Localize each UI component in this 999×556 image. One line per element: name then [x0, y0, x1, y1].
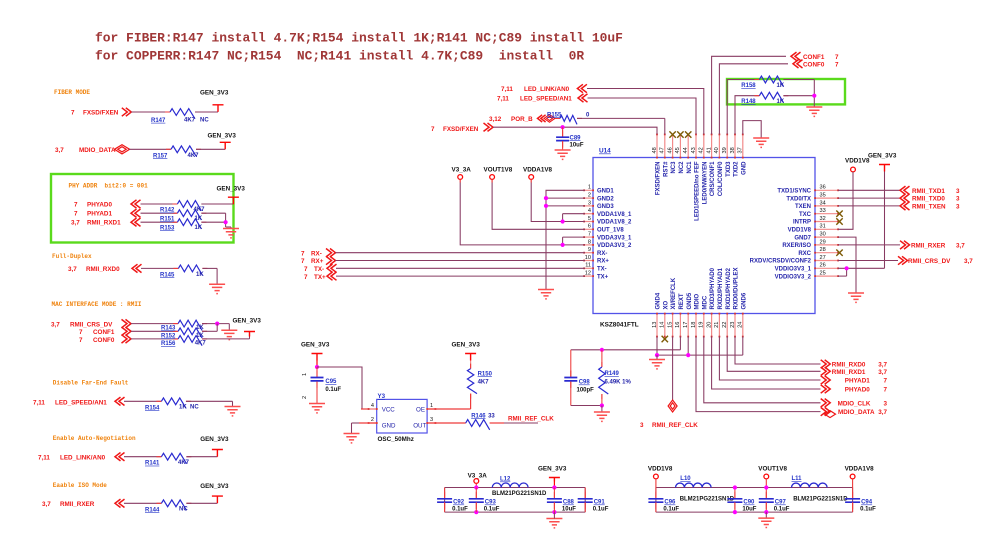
svg-text:TXEN: TXEN: [795, 204, 811, 210]
svg-text:3,7: 3,7: [878, 369, 887, 376]
svg-text:0.1uF: 0.1uF: [325, 387, 341, 393]
svg-text:POR_B: POR_B: [511, 116, 533, 123]
svg-text:7: 7: [79, 329, 83, 336]
svg-text:RXDV/CRSDV/CONF2: RXDV/CRSDV/CONF2: [750, 259, 812, 265]
svg-text:4K7: 4K7: [194, 207, 206, 213]
svg-text:10uF: 10uF: [742, 507, 756, 513]
svg-text:TXD2: TXD2: [734, 161, 740, 177]
svg-text:27: 27: [820, 255, 826, 261]
svg-text:RMII_RXER: RMII_RXER: [911, 243, 946, 250]
svg-text:37: 37: [738, 147, 744, 153]
svg-text:R157: R157: [153, 153, 168, 159]
svg-text:NC2: NC2: [679, 161, 685, 174]
svg-text:Eaable ISO Mode: Eaable ISO Mode: [53, 482, 107, 489]
svg-text:PHYAD1: PHYAD1: [845, 378, 870, 385]
svg-text:BLM21PG221SN1D: BLM21PG221SN1D: [492, 491, 547, 497]
svg-text:VCC: VCC: [382, 406, 396, 413]
svg-text:6: 6: [588, 224, 591, 230]
svg-text:3,7: 3,7: [878, 362, 887, 369]
svg-text:4K7: 4K7: [195, 341, 207, 347]
svg-text:7: 7: [71, 110, 75, 117]
svg-text:1K: 1K: [196, 333, 204, 339]
svg-text:RMII_TXD0: RMII_TXD0: [912, 196, 945, 203]
svg-text:L10: L10: [680, 476, 691, 482]
svg-text:GND2: GND2: [597, 196, 614, 202]
svg-text:VDDIO3V3_2: VDDIO3V3_2: [775, 274, 812, 280]
svg-text:RXER/ISO: RXER/ISO: [782, 243, 811, 249]
svg-text:48: 48: [652, 147, 658, 153]
svg-text:VDD1V8: VDD1V8: [845, 158, 870, 165]
svg-text:LED_SPEED/AN1: LED_SPEED/AN1: [55, 399, 107, 406]
svg-text:C97: C97: [775, 500, 787, 506]
svg-text:NC1: NC1: [687, 161, 693, 174]
svg-text:C96: C96: [664, 500, 676, 506]
svg-text:C94: C94: [861, 500, 873, 506]
svg-text:OSC_50Mhz: OSC_50Mhz: [378, 436, 414, 443]
svg-text:3: 3: [430, 417, 433, 423]
svg-text:C89: C89: [570, 135, 582, 141]
svg-text:R146: R146: [471, 413, 486, 419]
svg-text:GEN_3V3: GEN_3V3: [217, 186, 246, 193]
svg-text:OUT_1V8: OUT_1V8: [597, 228, 624, 234]
svg-text:MDIO_DATA: MDIO_DATA: [838, 409, 875, 416]
svg-text:LED0/NWAYEN: LED0/NWAYEN: [702, 162, 708, 205]
svg-text:38: 38: [730, 147, 736, 153]
svg-text:46: 46: [667, 147, 673, 153]
svg-text:VDDA1V8: VDDA1V8: [845, 465, 875, 472]
svg-text:21: 21: [714, 322, 720, 328]
svg-text:GEN_3V3: GEN_3V3: [233, 317, 262, 324]
svg-text:R148: R148: [741, 99, 756, 105]
svg-text:RMII_REF_CLK: RMII_REF_CLK: [508, 416, 554, 423]
svg-text:23: 23: [730, 322, 736, 328]
svg-text:100pF: 100pF: [577, 388, 595, 394]
svg-text:R149: R149: [605, 371, 620, 377]
svg-text:7: 7: [588, 232, 591, 238]
svg-text:TX-: TX-: [597, 267, 607, 273]
svg-text:C90: C90: [743, 500, 755, 506]
svg-text:GND5: GND5: [687, 292, 693, 309]
svg-text:RXC: RXC: [798, 251, 811, 257]
svg-text:RX+: RX+: [597, 259, 609, 265]
svg-text:RMII_TXEN: RMII_TXEN: [912, 204, 946, 211]
svg-text:0.1uF: 0.1uF: [774, 507, 790, 513]
svg-text:7,11: 7,11: [501, 86, 513, 93]
svg-text:16: 16: [675, 322, 681, 328]
svg-text:LED_LINK/AN0: LED_LINK/AN0: [524, 86, 570, 93]
svg-text:R152: R152: [161, 333, 176, 339]
svg-text:FXSD/FXEN: FXSD/FXEN: [443, 126, 479, 133]
svg-text:GEN_3V3: GEN_3V3: [868, 153, 897, 160]
svg-text:36: 36: [820, 185, 826, 191]
svg-text:1K: 1K: [777, 83, 785, 89]
svg-text:3: 3: [956, 188, 960, 195]
svg-text:24: 24: [738, 322, 744, 328]
svg-text:R154: R154: [145, 405, 160, 411]
svg-text:TX+: TX+: [314, 274, 326, 281]
svg-text:TXD0/TX: TXD0/TX: [786, 196, 811, 202]
svg-text:PHYAD0: PHYAD0: [845, 387, 870, 394]
svg-text:for FIBER:R147 install 4.7K;R1: for FIBER:R147 install 4.7K;R154 install…: [95, 31, 623, 46]
svg-text:R153: R153: [160, 225, 175, 231]
svg-text:7: 7: [79, 337, 83, 344]
svg-text:1: 1: [588, 185, 591, 191]
svg-text:GND: GND: [382, 422, 396, 429]
svg-text:7: 7: [74, 202, 78, 209]
svg-text:0.1uF: 0.1uF: [484, 507, 500, 513]
svg-text:15: 15: [667, 322, 673, 328]
svg-text:3: 3: [956, 204, 960, 211]
svg-text:CONF1: CONF1: [93, 329, 115, 336]
svg-text:7: 7: [835, 62, 839, 69]
svg-text:3,7: 3,7: [964, 258, 973, 265]
svg-text:5: 5: [588, 216, 591, 222]
svg-text:VDDA3V3_2: VDDA3V3_2: [597, 243, 632, 249]
svg-text:OE: OE: [416, 406, 425, 413]
svg-text:11: 11: [585, 263, 591, 269]
svg-text:GND6: GND6: [741, 292, 747, 309]
svg-text:1K: 1K: [179, 405, 187, 411]
svg-text:1: 1: [430, 403, 433, 409]
svg-text:3: 3: [588, 200, 591, 206]
svg-text:VOUT1V8: VOUT1V8: [484, 167, 513, 174]
svg-text:29: 29: [820, 239, 826, 245]
svg-text:3,7: 3,7: [68, 266, 77, 273]
svg-text:3,7: 3,7: [956, 243, 965, 250]
svg-text:17: 17: [683, 322, 689, 328]
svg-text:22: 22: [722, 322, 728, 328]
svg-text:RX+: RX+: [311, 258, 324, 265]
svg-text:R158: R158: [741, 83, 756, 89]
svg-text:7: 7: [301, 250, 305, 257]
svg-text:VDDIO3V3_1: VDDIO3V3_1: [775, 267, 812, 273]
svg-text:1: 1: [302, 373, 308, 376]
svg-text:42: 42: [699, 147, 705, 153]
svg-text:4: 4: [371, 403, 374, 409]
svg-text:RMII_REF_CLK: RMII_REF_CLK: [652, 422, 698, 429]
svg-text:R144: R144: [145, 507, 160, 513]
svg-text:TX+: TX+: [597, 274, 609, 280]
svg-text:7,11: 7,11: [33, 399, 45, 406]
svg-text:4K7: 4K7: [188, 153, 200, 159]
svg-text:GEN_3V3: GEN_3V3: [301, 342, 330, 349]
svg-text:7: 7: [835, 54, 839, 61]
svg-text:NC: NC: [200, 117, 209, 123]
svg-text:GEN_3V3: GEN_3V3: [208, 133, 237, 140]
svg-text:RMII_CRS_DV: RMII_CRS_DV: [70, 321, 113, 328]
svg-text:40: 40: [714, 147, 720, 153]
svg-text:7: 7: [431, 126, 435, 133]
svg-text:47: 47: [660, 147, 666, 153]
svg-text:10uF: 10uF: [570, 142, 584, 148]
svg-text:8: 8: [588, 239, 591, 245]
svg-text:20: 20: [706, 322, 712, 328]
svg-text:3,7: 3,7: [878, 409, 887, 416]
svg-text:LED_SPEED/AN1: LED_SPEED/AN1: [520, 96, 572, 103]
svg-text:R145: R145: [160, 272, 175, 278]
svg-text:L11: L11: [792, 476, 803, 482]
svg-text:10: 10: [585, 255, 591, 261]
svg-text:33: 33: [820, 208, 826, 214]
svg-text:4: 4: [588, 208, 591, 214]
svg-text:GEN_3V3: GEN_3V3: [200, 436, 229, 443]
svg-text:FXSD/FXEN: FXSD/FXEN: [83, 110, 119, 117]
svg-text:9: 9: [588, 247, 591, 253]
svg-text:FIBER MODE: FIBER MODE: [54, 89, 90, 96]
svg-text:3: 3: [640, 422, 644, 429]
svg-text:RST#: RST#: [663, 161, 669, 177]
svg-text:RX-: RX-: [311, 250, 322, 257]
svg-text:TXD1/SYNC: TXD1/SYNC: [777, 189, 811, 195]
svg-text:NC: NC: [179, 507, 188, 513]
svg-text:1K: 1K: [196, 272, 204, 278]
svg-text:3,7: 3,7: [51, 321, 60, 328]
svg-text:0.1uF: 0.1uF: [860, 507, 876, 513]
svg-text:PHYAD1: PHYAD1: [87, 211, 112, 218]
svg-text:GND1: GND1: [597, 189, 614, 195]
svg-text:4K7: 4K7: [178, 460, 190, 466]
svg-text:VDD1V8: VDD1V8: [648, 465, 673, 472]
svg-text:MDC: MDC: [702, 295, 708, 309]
svg-text:C95: C95: [325, 379, 337, 385]
svg-text:CONF0: CONF0: [93, 337, 115, 344]
svg-text:13: 13: [652, 322, 658, 328]
svg-text:TXC: TXC: [799, 212, 812, 218]
svg-text:GND: GND: [741, 161, 747, 175]
svg-text:BLM21PG221SN1D: BLM21PG221SN1D: [680, 497, 735, 503]
svg-text:7: 7: [304, 266, 308, 273]
svg-text:TX-: TX-: [314, 266, 324, 273]
svg-text:28: 28: [820, 247, 826, 253]
svg-text:R155: R155: [547, 112, 562, 118]
svg-text:C93: C93: [485, 500, 497, 506]
svg-text:R141: R141: [145, 461, 160, 467]
svg-text:VDD1V8: VDD1V8: [788, 228, 812, 234]
svg-text:10uF: 10uF: [562, 507, 576, 513]
svg-text:R150: R150: [478, 371, 493, 377]
svg-text:RX-: RX-: [597, 251, 607, 257]
svg-text:V3_3A: V3_3A: [452, 167, 472, 174]
svg-text:7: 7: [74, 211, 78, 218]
svg-text:RMII_RXD0: RMII_RXD0: [832, 362, 866, 369]
svg-text:RMII_RXER: RMII_RXER: [60, 501, 95, 508]
svg-text:7,11: 7,11: [38, 455, 50, 462]
svg-text:R142: R142: [160, 208, 175, 214]
svg-text:C91: C91: [594, 500, 606, 506]
svg-text:7: 7: [301, 258, 305, 265]
svg-text:35: 35: [820, 193, 826, 199]
svg-text:PHYAD0: PHYAD0: [87, 202, 112, 209]
svg-text:VDDA1V8_1: VDDA1V8_1: [597, 212, 632, 218]
svg-text:45: 45: [675, 147, 681, 153]
svg-text:1K: 1K: [195, 225, 203, 231]
svg-text:GND3: GND3: [597, 204, 614, 210]
svg-text:TXD3: TXD3: [726, 161, 732, 177]
svg-text:VDDA1V8_2: VDDA1V8_2: [597, 220, 632, 226]
svg-text:RMII_RXD1: RMII_RXD1: [87, 220, 121, 227]
svg-text:RXD3/PHYAD0: RXD3/PHYAD0: [710, 267, 716, 309]
svg-text:32: 32: [820, 216, 826, 222]
svg-text:INTRP: INTRP: [793, 220, 811, 226]
svg-text:7,11: 7,11: [497, 96, 509, 103]
svg-text:MAC INTERFACE MODE : RMII: MAC INTERFACE MODE : RMII: [52, 301, 142, 308]
svg-text:14: 14: [660, 322, 666, 328]
svg-text:7: 7: [883, 378, 887, 385]
svg-text:31: 31: [820, 224, 826, 230]
svg-text:3,7: 3,7: [71, 220, 80, 227]
svg-text:MDIO_CLK: MDIO_CLK: [838, 400, 871, 407]
svg-text:RMII_RXD0: RMII_RXD0: [86, 266, 120, 273]
svg-text:R156: R156: [161, 341, 176, 347]
svg-text:LED_LINK/AN0: LED_LINK/AN0: [60, 455, 106, 462]
svg-text:RMII_CRS_DV: RMII_CRS_DV: [908, 258, 951, 265]
svg-text:26: 26: [820, 263, 826, 269]
svg-text:44: 44: [683, 147, 689, 153]
svg-text:C98: C98: [579, 380, 591, 386]
svg-text:7: 7: [883, 387, 887, 394]
svg-text:3,7: 3,7: [55, 147, 64, 154]
svg-text:2: 2: [302, 396, 308, 399]
svg-text:VOUT1V8: VOUT1V8: [758, 465, 787, 472]
svg-text:Y3: Y3: [378, 393, 386, 400]
svg-text:Enable Auto-Negotiation: Enable Auto-Negotiation: [53, 435, 136, 442]
svg-text:6.49K 1%: 6.49K 1%: [605, 380, 632, 386]
svg-text:XI/REFCLK: XI/REFCLK: [671, 277, 677, 309]
svg-text:COL/CONF0: COL/CONF0: [718, 161, 724, 196]
svg-text:41: 41: [706, 147, 712, 153]
svg-text:NC3: NC3: [671, 161, 677, 174]
svg-text:FXSD/FXEN: FXSD/FXEN: [656, 162, 662, 196]
svg-text:C88: C88: [563, 500, 575, 506]
svg-text:RXD0/DUPLEX: RXD0/DUPLEX: [734, 267, 740, 309]
svg-text:GND4: GND4: [656, 292, 662, 309]
svg-text:30: 30: [820, 232, 826, 238]
svg-text:CRS/CONF1: CRS/CONF1: [710, 161, 716, 196]
svg-text:U14: U14: [599, 148, 611, 155]
svg-text:LED1/SPEED/no FEF: LED1/SPEED/no FEF: [695, 161, 701, 221]
svg-text:GEN_3V3: GEN_3V3: [452, 342, 481, 349]
svg-text:NC: NC: [190, 405, 199, 411]
svg-text:Full-Duplex: Full-Duplex: [52, 253, 92, 260]
svg-text:VDDA3V3_1: VDDA3V3_1: [597, 235, 632, 241]
svg-text:RXD1/PHYAD2: RXD1/PHYAD2: [726, 267, 732, 309]
svg-text:C92: C92: [453, 500, 465, 506]
svg-text:RMII_RXD1: RMII_RXD1: [832, 369, 866, 376]
svg-text:12: 12: [585, 271, 591, 277]
svg-text:RMII_TXD1: RMII_TXD1: [912, 188, 945, 195]
svg-text:for COPPERR:R147 NC;R154 NC;R: for COPPERR:R147 NC;R154 NC;R141 install…: [95, 49, 584, 64]
svg-text:1K: 1K: [777, 99, 785, 105]
svg-text:MDIO_DATA: MDIO_DATA: [79, 147, 116, 154]
svg-text:3,12: 3,12: [489, 116, 502, 123]
svg-text:VDDA1V8: VDDA1V8: [523, 167, 553, 174]
svg-text:CONF0: CONF0: [803, 62, 825, 69]
svg-text:RXD2/PHYAD1: RXD2/PHYAD1: [718, 267, 724, 309]
svg-text:2: 2: [588, 193, 591, 199]
svg-text:CONF1: CONF1: [803, 54, 825, 61]
svg-text:3,7: 3,7: [42, 501, 51, 508]
svg-text:33: 33: [488, 413, 495, 419]
svg-text:XO: XO: [663, 300, 669, 309]
svg-text:19: 19: [699, 322, 705, 328]
svg-text:OUT: OUT: [413, 422, 426, 429]
svg-text:2: 2: [371, 417, 374, 423]
svg-text:GEN_3V3: GEN_3V3: [200, 483, 229, 490]
svg-text:0.1uF: 0.1uF: [452, 507, 468, 513]
svg-text:R147: R147: [151, 118, 166, 124]
svg-text:18: 18: [691, 322, 697, 328]
svg-text:PHY ADDR bit2:0 = 001: PHY ADDR bit2:0 = 001: [69, 183, 149, 190]
svg-text:BLM21PG221SN1D: BLM21PG221SN1D: [793, 497, 848, 503]
svg-text:0.1uF: 0.1uF: [663, 507, 679, 513]
svg-text:MDIO: MDIO: [695, 294, 701, 310]
svg-text:R143: R143: [161, 325, 176, 331]
svg-text:REXT: REXT: [679, 293, 685, 309]
svg-text:GEN_3V3: GEN_3V3: [200, 90, 229, 97]
svg-text:R151: R151: [160, 216, 175, 222]
svg-text:0.1uF: 0.1uF: [593, 507, 609, 513]
svg-text:39: 39: [722, 147, 728, 153]
svg-text:Disable Far-End Fault: Disable Far-End Fault: [53, 379, 129, 386]
svg-text:KSZ8041FTL: KSZ8041FTL: [600, 322, 639, 329]
svg-text:3: 3: [956, 196, 960, 203]
svg-text:L12: L12: [500, 477, 511, 483]
svg-text:34: 34: [820, 200, 826, 206]
svg-text:3: 3: [883, 400, 887, 407]
svg-text:GND7: GND7: [794, 235, 811, 241]
svg-text:7: 7: [304, 274, 308, 281]
svg-text:4K7: 4K7: [478, 379, 490, 385]
svg-text:4K7: 4K7: [184, 117, 196, 123]
svg-text:1K: 1K: [196, 325, 204, 331]
svg-text:GEN_3V3: GEN_3V3: [538, 466, 567, 473]
svg-text:43: 43: [691, 147, 697, 153]
svg-text:1K: 1K: [195, 216, 203, 222]
svg-text:25: 25: [820, 271, 826, 277]
